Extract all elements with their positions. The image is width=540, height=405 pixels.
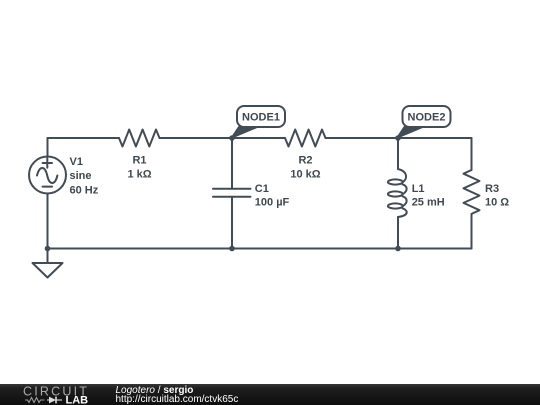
logo diode doodle bbox=[47, 399, 49, 401]
wire R3 top vertical bbox=[471, 138, 473, 170]
wire NODE1 to R2 bbox=[232, 137, 285, 139]
svg-text:R2: R2 bbox=[298, 154, 312, 166]
wire bottom horizontal bbox=[48, 248, 472, 250]
NODE2 label box bbox=[403, 106, 451, 127]
junction L1 bottom dot bbox=[395, 246, 401, 252]
svg-text:NODE1: NODE1 bbox=[242, 112, 280, 124]
junction node2 dot bbox=[395, 135, 401, 141]
resistor R3 bbox=[464, 170, 480, 214]
wire top-left horizontal V1 to R1 bbox=[48, 137, 120, 139]
svg-text:25 mH: 25 mH bbox=[412, 197, 445, 209]
junction C1 bottom dot bbox=[229, 246, 235, 252]
wire NODE2 to R3 top corner bbox=[398, 137, 472, 139]
wire R2 to NODE2 bbox=[326, 137, 399, 139]
resistor R2 bbox=[285, 130, 326, 147]
svg-text:60 Hz: 60 Hz bbox=[70, 184, 99, 196]
voltage source V1 bbox=[29, 157, 66, 194]
svg-text:C1: C1 bbox=[255, 183, 269, 195]
junction node1 dot bbox=[229, 135, 235, 141]
svg-text:1 kΩ: 1 kΩ bbox=[127, 168, 151, 180]
V1 plus sign bbox=[43, 158, 52, 167]
svg-text:10 kΩ: 10 kΩ bbox=[290, 168, 320, 180]
svg-text:LAB: LAB bbox=[66, 395, 89, 405]
NODE2 callout pointer bbox=[398, 127, 423, 138]
footer bar bbox=[0, 384, 540, 405]
junction ground dot bbox=[45, 246, 51, 252]
wire C1 top vertical bbox=[231, 138, 233, 189]
wire V1 top vertical bbox=[47, 138, 49, 157]
wire R3 bottom vertical bbox=[471, 214, 473, 248]
V1 sine symbol bbox=[37, 168, 57, 183]
ground bbox=[33, 249, 63, 278]
svg-text:NODE2: NODE2 bbox=[408, 112, 446, 124]
wire V1 bottom vertical bbox=[47, 194, 49, 249]
svg-text:10 Ω: 10 Ω bbox=[485, 197, 509, 209]
svg-text:V1: V1 bbox=[70, 156, 83, 168]
wire R1 to NODE1 bbox=[160, 137, 233, 139]
inductor L1 bbox=[388, 169, 407, 217]
NODE1 label box bbox=[237, 106, 285, 127]
logo resistor doodle bbox=[25, 398, 45, 403]
text labels bbox=[70, 112, 510, 209]
resistor R1 bbox=[119, 130, 159, 147]
capacitor C1 bbox=[213, 189, 251, 197]
svg-text:sine: sine bbox=[70, 170, 92, 182]
svg-text:100 µF: 100 µF bbox=[255, 197, 290, 209]
wire C1 bottom vertical bbox=[231, 197, 233, 249]
CircuitLab logo bbox=[0, 384, 110, 405]
wire L1 bottom vertical bbox=[397, 217, 399, 249]
footer url text bbox=[116, 395, 239, 405]
svg-text:L1: L1 bbox=[412, 183, 425, 195]
V1 minus sign bbox=[43, 186, 52, 188]
svg-text:R1: R1 bbox=[132, 154, 146, 166]
NODE1 callout pointer bbox=[232, 127, 257, 138]
svg-text:R3: R3 bbox=[485, 183, 499, 195]
wire L1 top vertical bbox=[397, 138, 399, 169]
footer credits text bbox=[116, 386, 194, 396]
